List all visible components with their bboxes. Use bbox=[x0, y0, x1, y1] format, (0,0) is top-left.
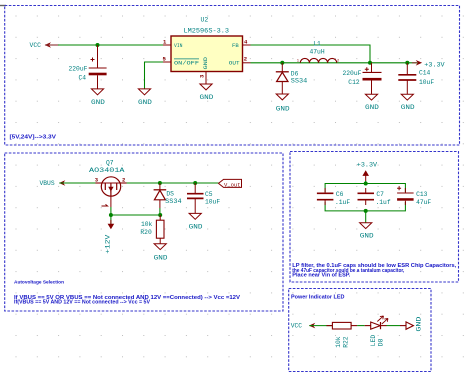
svg-text:V_out: V_out bbox=[224, 181, 241, 188]
svg-text:GND: GND bbox=[91, 99, 105, 106]
ground under R20 bbox=[154, 244, 166, 250]
power flag VCC (LED) bbox=[291, 322, 316, 329]
svg-text:.1uF: .1uF bbox=[335, 199, 350, 206]
junction at C4 bbox=[96, 43, 100, 47]
svg-text:GND: GND bbox=[189, 224, 203, 231]
capacitor C6 .1uF bbox=[317, 188, 334, 205]
svg-text:VIN: VIN bbox=[174, 42, 183, 49]
svg-text:GND: GND bbox=[401, 104, 415, 111]
svg-text:.1uf: .1uf bbox=[376, 199, 391, 206]
svg-text:C5: C5 bbox=[205, 191, 213, 198]
resistor R22 10k bbox=[332, 322, 351, 329]
junction at DS bbox=[158, 181, 162, 185]
svg-text:47uH: 47uH bbox=[310, 48, 325, 55]
ground at ON/OFF bbox=[138, 89, 150, 95]
capacitor C5 10uF bbox=[187, 183, 204, 213]
wire R22 to D8 bbox=[351, 325, 357, 327]
svg-text:[5V,24V]-->3.3V: [5V,24V]-->3.3V bbox=[10, 134, 57, 140]
power flag +3.3V (output) bbox=[412, 60, 445, 69]
pin 1 gate stub bbox=[110, 196, 112, 207]
svg-text:VBUS: VBUS bbox=[40, 180, 55, 187]
wire VCC to VIN bbox=[58, 44, 163, 46]
svg-text:If(VBUS == 5V AND 12V == Not c: If(VBUS == 5V AND 12V == Not connected -… bbox=[14, 300, 151, 306]
svg-text:LED: LED bbox=[370, 335, 377, 347]
svg-text:LM2596S-3.3: LM2596S-3.3 bbox=[184, 28, 230, 35]
capacitor C12 220uF (polarized) bbox=[363, 63, 382, 94]
svg-text:FB: FB bbox=[232, 42, 239, 49]
capacitor C14 10uF bbox=[398, 63, 416, 94]
svg-text:C12: C12 bbox=[348, 79, 360, 86]
section box 3: LP filter bbox=[290, 152, 459, 283]
svg-text:Power Indicator LED: Power Indicator LED bbox=[291, 295, 345, 301]
svg-text:10uF: 10uF bbox=[205, 199, 220, 206]
junction at gate bbox=[109, 213, 113, 217]
svg-text:C13: C13 bbox=[416, 191, 428, 198]
ground under C4 bbox=[91, 89, 103, 95]
power flag VBUS bbox=[40, 180, 66, 187]
corner artifact top-left bbox=[0, 5, 6, 7]
svg-text:47uF: 47uF bbox=[416, 199, 431, 206]
svg-text:10uF: 10uF bbox=[419, 79, 434, 86]
svg-text:10k: 10k bbox=[141, 221, 153, 228]
junction top rail bbox=[364, 182, 368, 186]
ground under U2 bbox=[200, 84, 212, 90]
svg-text:GND: GND bbox=[276, 105, 290, 112]
wire OUT net bbox=[251, 62, 418, 64]
wire VCC to R22 bbox=[309, 325, 332, 327]
svg-text:GND: GND bbox=[154, 254, 168, 261]
svg-text:R22: R22 bbox=[343, 336, 350, 348]
wire gate rail bbox=[111, 214, 160, 216]
svg-text:GND: GND bbox=[200, 94, 214, 101]
global label V_out bbox=[219, 179, 242, 188]
pin 2 OUT stub bbox=[243, 62, 251, 64]
pin number 1 (Q7) bbox=[102, 204, 108, 206]
svg-text:GND: GND bbox=[416, 316, 423, 331]
capacitor C4 220uF (polarized) bbox=[89, 45, 107, 89]
pin name ON/OFF bbox=[174, 59, 199, 67]
power symbol +3.3V bbox=[357, 162, 378, 184]
regulator U2 LM2596S-3.3 body bbox=[171, 36, 243, 72]
svg-text:GND: GND bbox=[202, 56, 209, 69]
svg-text:+3.3V: +3.3V bbox=[357, 162, 378, 169]
ground under C12 bbox=[365, 94, 377, 100]
junction at R20 bbox=[158, 213, 162, 217]
power symbol +12V bbox=[105, 215, 115, 254]
svg-text:U2: U2 bbox=[201, 17, 209, 24]
pin 4 FB stub bbox=[243, 44, 251, 46]
svg-text:220uF: 220uF bbox=[69, 66, 88, 73]
svg-text:GND: GND bbox=[138, 99, 152, 106]
power flag GND (right, rotated) bbox=[406, 316, 423, 331]
wire FB net bbox=[251, 45, 371, 63]
svg-text:C7: C7 bbox=[376, 191, 384, 198]
wire Q7 drain to V_out bbox=[121, 182, 219, 184]
section box 4: power indicator LED bbox=[289, 289, 431, 372]
section box 1: buck converter bbox=[5, 6, 460, 146]
junction bottom rail bbox=[364, 209, 368, 213]
svg-text:R20: R20 bbox=[140, 229, 152, 236]
svg-text:+12V: +12V bbox=[105, 235, 112, 254]
resistor R20 10k bbox=[156, 215, 164, 244]
pin 5 ON/OFF stub bbox=[163, 61, 171, 63]
section box 2: autovoltage selection bbox=[5, 153, 283, 311]
wire VBUS to Q7 bbox=[59, 182, 101, 184]
pin 3 GND stub bbox=[205, 72, 207, 84]
junction at C12/FB bbox=[368, 61, 372, 65]
svg-text:L1: L1 bbox=[313, 40, 321, 47]
svg-text:Q7: Q7 bbox=[106, 160, 114, 167]
svg-text:GND: GND bbox=[365, 104, 379, 111]
wire D8 to GND bbox=[381, 325, 387, 327]
wire bottom rail bbox=[325, 202, 405, 211]
capacitor C7 .1uf bbox=[358, 188, 375, 205]
svg-text:10k: 10k bbox=[335, 336, 342, 348]
svg-text:C14: C14 bbox=[419, 70, 431, 77]
svg-text:+3.3V: +3.3V bbox=[424, 62, 445, 69]
svg-text:D8: D8 bbox=[377, 338, 384, 346]
ground under C14 bbox=[401, 94, 413, 100]
svg-text:C6: C6 bbox=[336, 191, 344, 198]
ground under C5 bbox=[189, 213, 201, 219]
junction at D6 bbox=[280, 61, 284, 65]
wire gate down bbox=[110, 207, 112, 215]
svg-text:ON/OFF: ON/OFF bbox=[174, 60, 199, 67]
diode D6 SS34 bbox=[276, 63, 289, 94]
svg-text:220uF: 220uF bbox=[343, 70, 362, 77]
svg-text:VCC: VCC bbox=[291, 322, 303, 329]
svg-text:D6: D6 bbox=[291, 70, 299, 77]
svg-text:OUT: OUT bbox=[229, 60, 240, 67]
ground (LP filter) bbox=[360, 223, 372, 229]
diode DS SS34 bbox=[154, 183, 167, 215]
ground under D6 bbox=[276, 94, 288, 100]
wire to ground bbox=[365, 211, 367, 223]
svg-text:GND: GND bbox=[360, 233, 374, 240]
svg-text:C4: C4 bbox=[79, 75, 87, 82]
wire ON/OFF to gnd bbox=[145, 62, 164, 89]
transistor Q7 AO3401A bbox=[101, 177, 120, 196]
svg-text:Autovoltage Selection: Autovoltage Selection bbox=[14, 280, 64, 286]
capacitor C13 47uF (polarized) bbox=[397, 186, 414, 205]
svg-text:VCC: VCC bbox=[30, 42, 42, 49]
svg-text:AO3401A: AO3401A bbox=[89, 167, 125, 174]
svg-text:SS34: SS34 bbox=[291, 77, 308, 84]
junction at C14 bbox=[405, 61, 409, 65]
svg-text:SS34: SS34 bbox=[165, 198, 182, 205]
inductor L1 47uH bbox=[300, 58, 336, 62]
LED D8 bbox=[371, 316, 388, 329]
pin 1 VIN stub bbox=[163, 44, 171, 46]
power flag VCC (input) bbox=[30, 42, 60, 49]
junction at C5 bbox=[193, 181, 197, 185]
svg-text:DS: DS bbox=[166, 191, 174, 198]
svg-text:Place near Vin of ESP.: Place near Vin of ESP. bbox=[292, 273, 351, 279]
wire top rail bbox=[325, 184, 405, 193]
